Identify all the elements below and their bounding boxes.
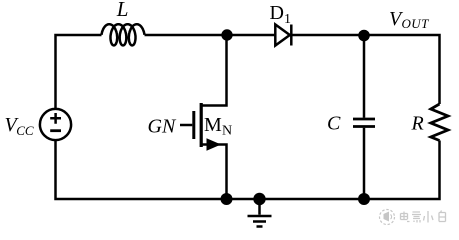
svg-text:M: M	[204, 114, 222, 136]
svg-text:CC: CC	[16, 123, 34, 138]
wire node SW to diode anode	[227, 34, 275, 37]
svg-text:C: C	[327, 113, 341, 135]
ground bars	[248, 216, 272, 227]
svg-text:GN: GN	[148, 116, 177, 138]
node VOUT junction dot	[358, 30, 370, 42]
MOSFET source arrow	[207, 138, 222, 150]
VCC minus sign	[50, 129, 61, 132]
wire resistor to bottom-right corner	[364, 141, 440, 200]
MOSFET gate bar	[192, 111, 195, 139]
MOSFET source leg	[201, 145, 226, 194]
watermark text dian	[401, 212, 410, 222]
junction dot ground	[253, 193, 265, 205]
VCC plus sign	[50, 113, 61, 124]
svg-text:D: D	[270, 2, 284, 24]
svg-text:OUT: OUT	[402, 16, 430, 31]
inductor L	[102, 24, 145, 45]
diode D1	[275, 25, 290, 46]
svg-text:R: R	[411, 113, 424, 135]
MOSFET channel bar	[200, 103, 203, 147]
svg-text:1: 1	[284, 12, 291, 27]
voltage source VCC circle	[40, 109, 71, 140]
svg-text:L: L	[116, 0, 129, 21]
gate wire GN	[180, 124, 192, 127]
capacitor C plates	[353, 119, 375, 127]
watermark megaphone	[384, 212, 390, 222]
MOSFET drain leg	[201, 41, 226, 106]
watermark text bai	[439, 211, 446, 222]
wire top-left from source to inductor	[56, 35, 102, 109]
watermark icon circle	[380, 210, 395, 225]
capacitor C bottom lead	[363, 128, 366, 194]
capacitor C top lead	[363, 41, 366, 118]
ground stem	[258, 199, 261, 215]
junction dot cap-bottom	[358, 193, 370, 205]
svg-text:N: N	[222, 124, 232, 139]
resistor R	[431, 104, 448, 141]
wire inductor to node SW	[145, 34, 228, 37]
watermark text xiao	[424, 211, 434, 223]
watermark text yuan	[412, 212, 421, 223]
junction dot source-bottom	[221, 193, 233, 205]
wire diode cathode to output node	[291, 34, 364, 37]
wire output node to top-right corner	[364, 35, 440, 104]
node SW junction dot	[221, 29, 232, 40]
wire bottom rail	[56, 140, 365, 199]
